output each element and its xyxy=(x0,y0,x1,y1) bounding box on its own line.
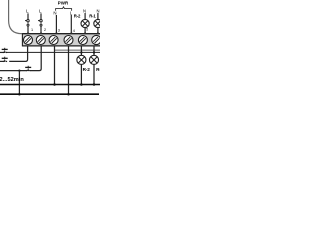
svg-text:1: 1 xyxy=(31,28,33,32)
bus N bottom xyxy=(0,84,100,86)
terminal screw 3 xyxy=(49,36,58,45)
svg-text:R-1: R-1 xyxy=(89,13,96,18)
terminal screw 5 xyxy=(78,36,87,45)
wire L to button S1 xyxy=(27,13,29,19)
wire P3 branch to L bus xyxy=(18,71,20,95)
wire curved feed top-left xyxy=(9,0,22,34)
svg-text:2...52min: 2...52min xyxy=(0,77,24,83)
wire lamp R-2 bottom to N bus xyxy=(80,65,82,85)
svg-text:L: L xyxy=(39,9,42,14)
junction t5 lamp wire xyxy=(80,51,82,53)
svg-text:N: N xyxy=(83,9,86,14)
wire terminal 1 to P2 xyxy=(9,46,27,61)
brace PWR xyxy=(56,7,72,11)
junction N wire N bus xyxy=(53,83,56,86)
svg-text:R-1: R-1 xyxy=(96,67,100,72)
junction lamp R-1 N bus xyxy=(93,83,96,86)
wire N to lamp R-2 top xyxy=(84,13,86,20)
bus L bottom xyxy=(0,93,99,95)
lamp R-1 bottom xyxy=(89,55,98,64)
wire P3 left to edge xyxy=(0,70,27,72)
wire N to lamp R-1 top xyxy=(97,13,99,20)
junction L wire L bus xyxy=(67,93,70,96)
svg-text:2: 2 xyxy=(44,28,46,32)
svg-text:PWR: PWR xyxy=(58,1,69,6)
svg-text:4: 4 xyxy=(73,29,75,33)
svg-text:N: N xyxy=(97,9,100,14)
svg-text:R-2: R-2 xyxy=(83,67,91,72)
terminal screw 4 xyxy=(64,36,73,45)
wire terminal 4 to L bus xyxy=(68,46,70,94)
wire S2 to terminal 2 xyxy=(40,26,42,33)
wire lamp R-2 to terminal 5 xyxy=(84,27,86,33)
push-button P1 xyxy=(0,48,8,53)
wire terminal 5 to lamp R-2 bottom xyxy=(80,46,82,55)
junction t6 lamp wire xyxy=(93,51,95,53)
wire N to terminal 3 xyxy=(55,15,57,34)
terminal screw 1 xyxy=(24,36,33,45)
junction P3 branch xyxy=(18,69,20,71)
wire L lamps horizontal xyxy=(7,51,100,53)
push-button S2 xyxy=(38,20,42,27)
wire N branch horizontal xyxy=(55,49,101,51)
svg-text:5: 5 xyxy=(86,28,88,32)
strip clamp nubs xyxy=(27,33,99,34)
wire terminal 2 to P3 xyxy=(30,46,41,70)
lamp R-2 top xyxy=(81,19,89,27)
lamp R-2 bottom xyxy=(77,55,86,64)
svg-text:3: 3 xyxy=(58,29,60,33)
wire L to terminal 4 xyxy=(70,15,72,34)
junction branch L bus xyxy=(18,93,21,96)
terminal strip body xyxy=(22,33,100,46)
lamp R-1 top xyxy=(94,19,102,27)
push-button P2 xyxy=(0,57,8,62)
junction lamp R-2 N bus xyxy=(80,83,83,86)
push-button S1 xyxy=(25,20,29,27)
push-button P3 xyxy=(25,66,31,72)
terminal screw 6 xyxy=(92,35,101,44)
terminal screw 2 xyxy=(36,36,45,45)
wire terminal 3 to N bus xyxy=(54,46,56,84)
svg-text:R-2: R-2 xyxy=(74,13,81,18)
wire terminal 6 to lamp R-1 bottom xyxy=(93,46,95,55)
wire lamp R-1 bottom to N bus xyxy=(93,65,95,85)
wire lamp R-1 to terminal 6 xyxy=(97,27,99,33)
svg-text:N: N xyxy=(53,10,56,15)
wire L to button S2 xyxy=(40,13,42,19)
wire S1 to terminal 1 xyxy=(27,26,29,33)
svg-text:L: L xyxy=(26,9,29,14)
